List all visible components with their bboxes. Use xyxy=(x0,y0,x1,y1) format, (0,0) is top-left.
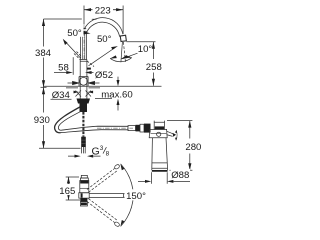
svg-text:50°: 50° xyxy=(97,34,112,45)
lever knob right side xyxy=(87,68,91,70)
dimension 280 extension top xyxy=(167,120,192,122)
aerator tilted stream line 10deg xyxy=(121,42,123,62)
top view flange xyxy=(80,178,88,181)
side view: hose fittings into spray xyxy=(128,126,136,131)
hose dash-dot centerline xyxy=(97,127,133,129)
svg-text:58: 58 xyxy=(58,63,69,74)
top view faucet: top cap xyxy=(81,175,87,178)
dimension 930 bottom arrow xyxy=(42,141,45,148)
dimension 165 arrows xyxy=(67,177,70,184)
top view spout solid xyxy=(89,194,123,198)
hose between shank and fitting (dashed dark) xyxy=(82,112,84,137)
dashed spout upper tip ellipse xyxy=(114,164,120,170)
50deg #1 ray arrow xyxy=(63,39,68,45)
top view joint wider xyxy=(79,193,89,198)
side view lever xyxy=(167,131,173,136)
side view head body xyxy=(149,129,167,137)
left arrow of Ø52 pair at y72.5 xyxy=(85,71,92,74)
shank below counter xyxy=(80,86,87,98)
top view body dark band xyxy=(80,181,88,184)
label Ø52 xyxy=(94,69,115,80)
dimension 223 top: dim line xyxy=(84,9,123,11)
label 165 xyxy=(59,185,77,196)
front view: spout inner arc xyxy=(87,22,120,37)
svg-text:165: 165 xyxy=(59,186,75,197)
locknut dark xyxy=(77,99,91,104)
Ø34 arrow pair xyxy=(74,91,79,94)
max.60 bottom arrow xyxy=(117,99,120,105)
dimension 930 vertical line lower xyxy=(43,125,45,148)
dimension 280 line upper xyxy=(189,121,191,139)
front view: spout outer arc xyxy=(84,18,123,35)
top view bottom cap xyxy=(80,202,87,206)
extension line from aerator to 258 dim xyxy=(127,41,156,43)
front view faucet column xyxy=(80,60,87,87)
label 223 xyxy=(93,4,114,16)
dimension Ø88 line + outside arrows xyxy=(138,180,145,182)
label 384 xyxy=(35,47,53,58)
tick at counter level on 384/930 line xyxy=(41,86,47,88)
150deg arc arrows xyxy=(121,164,125,170)
hose end fitting dark vertical (G3/8 hose end) xyxy=(81,137,86,147)
svg-text:930: 930 xyxy=(34,115,50,126)
counter top line xyxy=(44,85,162,87)
dimension 384 vertical line lower xyxy=(43,58,45,88)
hose curving down-left to loop xyxy=(55,107,80,133)
top view: 165 extension lines xyxy=(66,177,82,200)
150deg swivel arc xyxy=(121,164,134,227)
Ø52 ring circle xyxy=(80,77,88,85)
svg-text:10°: 10° xyxy=(138,44,153,55)
dimension 223 arrow left xyxy=(84,8,91,11)
Ø52 arrows at ring xyxy=(68,81,79,84)
max.60 top arrow xyxy=(117,80,120,86)
label max.60 xyxy=(101,89,134,98)
svg-text:Ø52: Ø52 xyxy=(95,70,113,81)
label 280 xyxy=(182,139,204,151)
svg-text:258: 258 xyxy=(146,62,162,73)
dimension 258 line lower xyxy=(152,73,154,86)
dimension 384 bottom arrow xyxy=(42,80,45,87)
dimension 223 extension line right (to aerator) xyxy=(122,6,124,35)
930 bottom reference line xyxy=(39,147,81,149)
top view spout tip xyxy=(124,194,128,198)
label 258 xyxy=(145,60,162,71)
svg-text:384: 384 xyxy=(35,48,52,59)
faucet centerline dash-dot xyxy=(83,24,85,60)
counter second line near faucet xyxy=(66,87,100,89)
counter bottom line right xyxy=(95,98,112,100)
top view dashed spout upper xyxy=(87,169,117,193)
label 50deg #1 xyxy=(66,27,84,37)
label 930 xyxy=(34,114,52,125)
side view head midline xyxy=(151,132,167,134)
dimension 258 bottom arrow xyxy=(152,79,155,86)
dimension 223 extension tick left (faucet centerline up) xyxy=(83,6,85,25)
side view base dark band xyxy=(152,170,168,172)
svg-text:G: G xyxy=(92,146,100,158)
dimension 930 vertical line upper xyxy=(43,87,45,112)
svg-text:max.60: max.60 xyxy=(101,89,132,100)
dimension 223 arrow right xyxy=(116,8,123,11)
dimension 58 line xyxy=(54,72,67,74)
side view lever end double arrow xyxy=(175,131,178,140)
dimension 280 arrows xyxy=(188,121,191,128)
10deg leader arrow xyxy=(121,55,128,59)
dimension 384 top arrow xyxy=(42,19,45,26)
side view top line xyxy=(154,121,164,123)
label Ø34 xyxy=(51,90,72,99)
dimension 165 line upper xyxy=(68,177,70,184)
label 150deg xyxy=(125,189,148,200)
dimension Ø88 extension lines xyxy=(151,172,167,184)
top view lower dark band xyxy=(80,198,87,202)
Ø52 ring section xyxy=(79,77,88,87)
dashed spout lower tip ellipse xyxy=(114,221,120,227)
svg-text:223: 223 xyxy=(95,5,111,16)
dimension 384 vertical line upper xyxy=(43,19,45,47)
50deg #1 ray xyxy=(65,41,81,58)
50deg #2 ray with arrow xyxy=(89,48,116,66)
mounting hatch diagonals xyxy=(76,91,92,97)
label Ø88 xyxy=(171,169,191,179)
side view top cap dark band xyxy=(155,126,164,129)
svg-text:8: 8 xyxy=(106,150,110,157)
extension line top of spout (y=19) xyxy=(44,18,97,20)
svg-text:280: 280 xyxy=(185,142,201,153)
svg-text:150°: 150° xyxy=(126,191,146,202)
50deg #2 arc arrow left xyxy=(110,55,117,58)
svg-text:3: 3 xyxy=(100,145,104,152)
dimension 58 extension line (lever tip) xyxy=(72,57,74,75)
dimension 165 line lower xyxy=(68,195,70,200)
svg-text:Ø88: Ø88 xyxy=(171,170,189,181)
dimension 258 top arrow xyxy=(152,42,155,49)
side view pivot circle xyxy=(157,132,161,136)
aerator dashed axis line downward xyxy=(123,42,125,62)
counter bottom / Ø34 leader line left xyxy=(51,98,72,100)
10deg leader line xyxy=(123,53,138,58)
svg-text:Ø34: Ø34 xyxy=(52,90,71,101)
50deg #2 arc arrow right xyxy=(125,55,132,58)
50deg #2 arc below aerator with arrows xyxy=(110,58,131,62)
side view top cap xyxy=(154,122,164,129)
lever dashed position marks xyxy=(74,54,94,67)
text labels (white-boxed) xyxy=(34,4,205,202)
hose bundle below locknut xyxy=(80,104,88,113)
top view dashed spout lower xyxy=(87,199,117,223)
dimension 280 line lower xyxy=(189,154,191,171)
dimension 280 extension bottom xyxy=(170,169,193,171)
G3/8 thread xyxy=(82,147,86,153)
top view body xyxy=(80,181,89,193)
column head cap xyxy=(81,28,87,31)
50deg #1 arc arrow near column xyxy=(82,31,91,35)
side view column xyxy=(152,138,168,170)
dimension 58 arrow xyxy=(66,71,73,74)
svg-text:50°: 50° xyxy=(67,28,82,39)
hose running right to side view xyxy=(62,126,129,130)
dimension 930 top arrow xyxy=(42,87,45,94)
column joint line xyxy=(80,60,87,62)
side view column band lines xyxy=(152,163,168,168)
column inner hose lines xyxy=(83,33,85,60)
dimension 258 line upper xyxy=(152,42,154,59)
aerator square at spout end xyxy=(120,35,126,41)
G3/8 dim arrows xyxy=(75,155,81,158)
column upper section xyxy=(81,31,87,59)
